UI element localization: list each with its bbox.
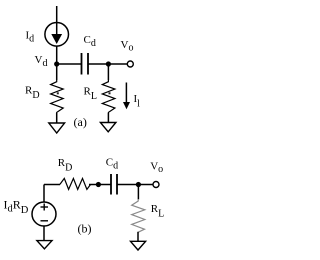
label R_D (b): [58, 157, 73, 174]
wire node to RL (a): [107, 64, 109, 80]
ground under RL (a): [100, 123, 116, 132]
label R_D (a): [25, 85, 40, 102]
svg-text:(b): (b): [78, 221, 92, 235]
voltage source minus sign: [41, 220, 49, 222]
label R_L (a): [84, 86, 97, 103]
node dot artifact on RL (a): [109, 92, 111, 94]
label I_d: [26, 30, 35, 45]
resistor RD (b) horizontal zigzag: [60, 178, 91, 189]
wire RD to capacitor (b): [89, 184, 111, 186]
current source arrow: [51, 23, 62, 44]
capacitor Cd (a) plates: [82, 53, 89, 75]
ground under RL (b): [131, 241, 146, 250]
label V_d: [35, 54, 48, 69]
label V_o (a): [121, 39, 134, 54]
ground under source (b): [37, 241, 52, 249]
wire RL to ground (a): [107, 113, 109, 123]
capacitor Cd (b) plates: [111, 174, 117, 195]
wire node to RL (b): [137, 185, 139, 200]
wire source bottom to ground (b): [43, 226, 45, 241]
wire RL to ground (b): [137, 232, 139, 242]
wire node Vd to capacitor Cd: [57, 63, 82, 65]
wire from current source to node Vd and down to RD: [56, 46, 58, 80]
voltage source circle (b): [32, 202, 56, 226]
label (a): [74, 115, 87, 129]
label C_d (b): [106, 157, 118, 172]
label V_o (b): [150, 160, 163, 175]
current arrow Il: [123, 83, 130, 110]
wire capacitor to Vo terminal (b): [117, 184, 153, 186]
resistor RL (a) zigzag: [102, 80, 115, 113]
label C_d (a): [84, 34, 96, 49]
label (b): [78, 221, 92, 235]
terminal Vo (a) open circle: [127, 61, 133, 67]
resistor RD (a) zigzag: [51, 80, 64, 113]
voltage source plus sign: [41, 204, 49, 211]
svg-text:(a): (a): [74, 115, 87, 129]
resistor RL (b) zigzag gray: [132, 199, 145, 232]
ground under RD: [49, 123, 65, 133]
wire RD to ground: [56, 113, 58, 123]
node junction dot left of Cd (b): [96, 182, 101, 187]
node junction dot above RL (b): [136, 182, 141, 187]
node dot artifact on RD (a): [57, 92, 59, 94]
terminal Vo (b) open circle: [153, 182, 159, 188]
wire source top up and right to RD (b): [44, 185, 60, 203]
wire top lead of current source: [56, 6, 58, 23]
label I_l: [134, 93, 141, 110]
node Vd junction dot: [54, 61, 59, 66]
label R_L (b): [151, 203, 164, 220]
current source Id circle: [45, 23, 69, 47]
node junction dot above RL (a): [106, 61, 111, 66]
wire capacitor to Vo terminal: [88, 63, 127, 65]
label IdRD source value: [4, 198, 29, 217]
